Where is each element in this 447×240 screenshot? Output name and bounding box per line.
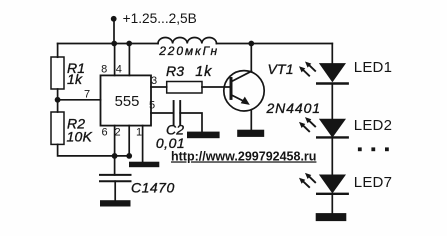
wire pin1 down xyxy=(142,126,144,162)
capacitor C2 right plate xyxy=(179,101,181,125)
svg-text:6: 6 xyxy=(102,127,108,139)
svg-text:R3: R3 xyxy=(166,63,184,79)
wire left rail top xyxy=(57,44,59,58)
svg-text:8: 8 xyxy=(101,64,107,76)
LED7 cathode bar xyxy=(317,193,348,195)
svg-text:LED1: LED1 xyxy=(354,59,392,76)
LED2 emission arrows xyxy=(299,117,316,132)
transistor VT1 emitter arrowhead xyxy=(241,97,250,105)
wire pin4 xyxy=(128,44,130,76)
node rail dot collector xyxy=(248,41,254,47)
op-amp U1 555 box xyxy=(101,75,152,125)
transistor VT1 base bar xyxy=(230,79,233,99)
transistor VT1 collector diagonal xyxy=(232,71,252,81)
svg-text:7: 7 xyxy=(84,88,90,100)
wire between R1 and R2 xyxy=(57,89,59,112)
wire emitter down xyxy=(250,111,252,130)
ground bar pin1 xyxy=(129,162,159,168)
wire LED2 down xyxy=(331,138,333,175)
node power terminal dot xyxy=(111,16,117,22)
svg-text:10K: 10K xyxy=(67,128,93,144)
wire top rail right segment xyxy=(217,43,333,45)
wire power stub xyxy=(113,19,115,44)
resistor R3 body xyxy=(167,82,202,94)
wire LED string top xyxy=(331,44,333,64)
wire C2 to ground xyxy=(180,113,202,132)
wire pin7 xyxy=(58,99,101,101)
svg-text:3: 3 xyxy=(151,75,157,87)
ground bar LED7 xyxy=(316,213,347,221)
ground bar C2 xyxy=(187,132,220,139)
wire LED1 to LED2 xyxy=(331,84,333,119)
svg-text:C1470: C1470 xyxy=(131,180,175,196)
wire top rail left segment xyxy=(58,43,158,45)
transistor VT1 circle xyxy=(224,71,264,111)
svg-text:+1.25...2,5В: +1.25...2,5В xyxy=(123,11,197,26)
wire to C1 xyxy=(114,156,116,175)
resistor R2 body xyxy=(51,112,64,144)
wire pin3 xyxy=(151,86,167,88)
ground bar emitter xyxy=(237,130,264,137)
svg-text:LED7: LED7 xyxy=(354,174,392,191)
LED1 emission arrows xyxy=(299,62,316,77)
inductor L1 220uH xyxy=(158,37,216,43)
node R1 R2 junction dot xyxy=(55,97,61,103)
node rail dot A xyxy=(111,41,117,47)
svg-text:http://www.299792458.ru: http://www.299792458.ru xyxy=(171,149,316,163)
svg-text:555: 555 xyxy=(115,94,140,110)
transistor VT1 emitter diagonal xyxy=(232,95,248,103)
wire C1 to ground xyxy=(114,181,116,200)
wire collector up xyxy=(250,44,252,72)
ellipsis dots between LED2 and LED7 xyxy=(358,147,362,151)
svg-text:2: 2 xyxy=(114,127,120,139)
wire pin8 xyxy=(114,44,116,76)
LED2 cathode bar xyxy=(317,136,348,138)
wire LED7 to ground xyxy=(331,194,333,213)
LED7 triangle xyxy=(319,175,346,194)
LED7 emission arrows xyxy=(299,173,316,188)
wire pin5 xyxy=(151,112,173,114)
svg-text:2N4401: 2N4401 xyxy=(266,100,321,116)
svg-text:1: 1 xyxy=(136,127,142,139)
LED1 cathode bar xyxy=(317,82,348,84)
node bottom dot pin2 xyxy=(126,153,132,159)
LED1 triangle xyxy=(319,63,346,82)
wire R2 bottom to bottom rail xyxy=(58,144,130,156)
wire pin2 down xyxy=(128,126,130,156)
wire pin6 down xyxy=(114,126,116,156)
wire R3 to base xyxy=(202,86,231,88)
svg-text:1k: 1k xyxy=(67,71,83,87)
node rail dot B xyxy=(126,41,132,47)
resistor R1 body xyxy=(51,57,64,89)
ground bar C1 xyxy=(100,200,131,206)
capacitor C2 left plate xyxy=(173,101,175,125)
capacitor C1 top plate xyxy=(100,174,131,176)
node bottom dot pin6 xyxy=(112,153,118,159)
svg-text:LED2: LED2 xyxy=(354,117,392,134)
svg-text:VT1: VT1 xyxy=(268,61,294,77)
svg-text:5: 5 xyxy=(149,99,155,111)
LED2 triangle xyxy=(319,119,346,138)
svg-text:220мкГн: 220мкГн xyxy=(158,44,219,58)
svg-text:4: 4 xyxy=(116,64,122,76)
svg-text:1k: 1k xyxy=(195,64,212,80)
capacitor C1 bottom plate xyxy=(100,180,131,182)
